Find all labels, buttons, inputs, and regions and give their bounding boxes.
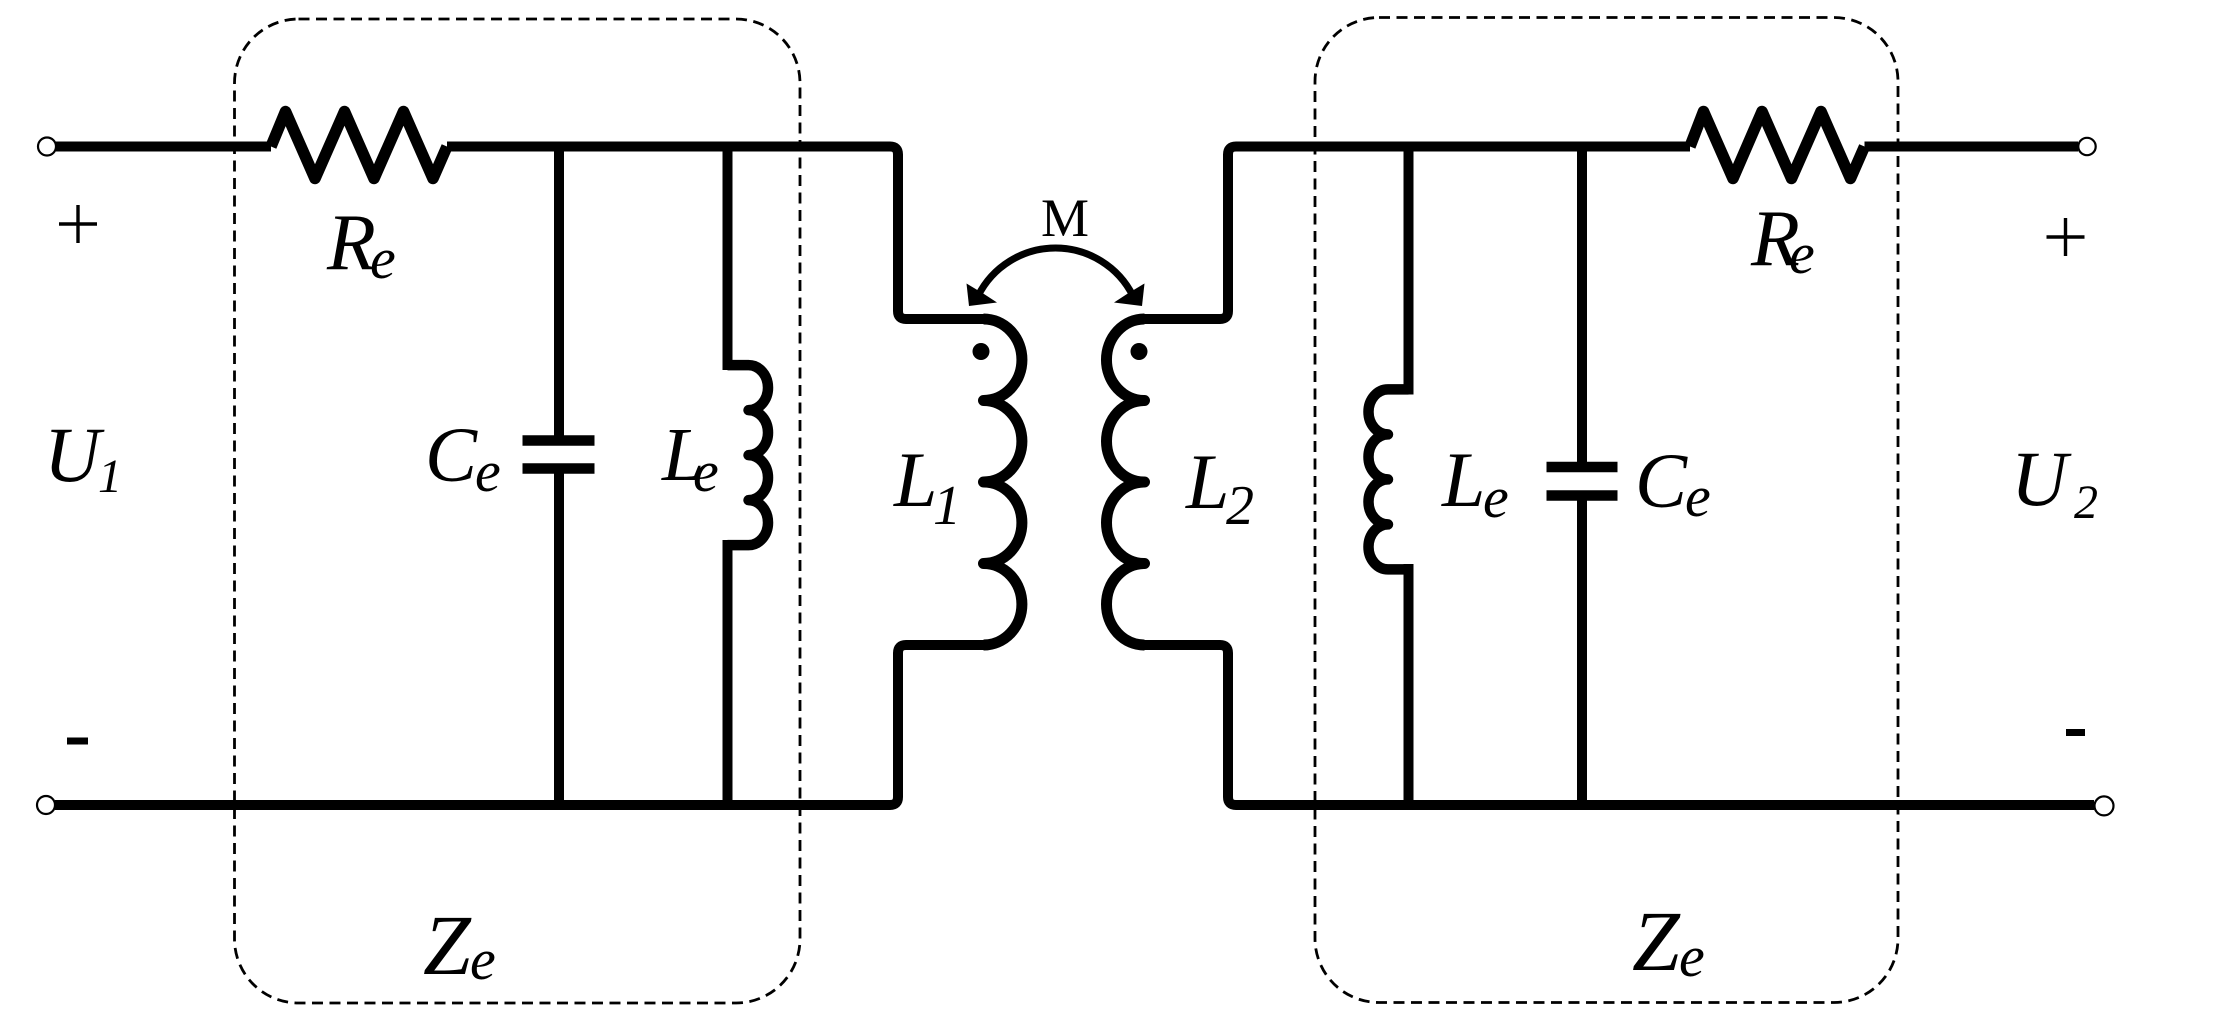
- wire top rail left with step down to primary: [447, 147, 984, 320]
- plus sign left: [59, 205, 97, 243]
- capacitor Ce left: [523, 441, 595, 469]
- svg-text:e: e: [1679, 924, 1705, 989]
- wire top rail right with step down to secondary: [1145, 147, 1691, 320]
- svg-text:e: e: [1789, 221, 1815, 286]
- svg-text:U: U: [44, 411, 105, 498]
- svg-text:L: L: [893, 436, 937, 523]
- svg-text:M: M: [1041, 188, 1089, 248]
- svg-text:e: e: [693, 439, 719, 504]
- svg-text:Z: Z: [423, 897, 472, 993]
- inductor Le left: [728, 365, 769, 545]
- svg-text:C: C: [1635, 437, 1688, 524]
- wire inductor branch lower right: [1404, 564, 1414, 805]
- resistor Re left: [271, 112, 447, 179]
- svg-text:U: U: [2011, 435, 2072, 522]
- svg-text:e: e: [1685, 464, 1711, 529]
- wire from resistor to right terminal: [1865, 142, 2079, 152]
- wire inductor branch upper left: [723, 142, 733, 371]
- wire capacitor branch upper left: [554, 142, 564, 436]
- polarity dot L1: [973, 343, 990, 360]
- dashed box Ze left: [235, 19, 801, 1003]
- svg-text:e: e: [1483, 465, 1509, 530]
- wire capacitor branch upper right: [1577, 142, 1587, 463]
- transformer winding L1: [984, 319, 1022, 645]
- svg-text:e: e: [370, 226, 396, 291]
- svg-text:2: 2: [1226, 475, 1254, 537]
- svg-text:L: L: [1185, 438, 1229, 525]
- wire top-left from terminal to resistor: [56, 142, 271, 152]
- capacitor Ce right: [1547, 467, 1618, 496]
- transformer winding L2: [1106, 319, 1144, 645]
- wire bottom rail left from primary to terminal: [55, 645, 984, 805]
- plus sign right: [2047, 218, 2085, 256]
- terminal port lower left: [37, 796, 55, 814]
- svg-text:1: 1: [98, 450, 122, 503]
- wire capacitor branch lower right: [1577, 501, 1587, 806]
- inductor Le right: [1368, 389, 1408, 569]
- wire inductor branch lower left: [723, 540, 733, 805]
- wire bottom rail right from secondary to terminal: [1145, 645, 2095, 805]
- terminal port lower right: [2095, 796, 2114, 815]
- wire capacitor branch lower left: [554, 474, 564, 806]
- svg-text:L: L: [1441, 436, 1485, 523]
- minus sign left: [67, 738, 88, 745]
- minus sign right: [2066, 729, 2085, 736]
- mutual inductance arrow M: [978, 248, 1133, 296]
- terminal port upper right: [2078, 138, 2095, 155]
- svg-text:R: R: [326, 199, 376, 287]
- terminal port upper left: [38, 138, 56, 156]
- svg-text:2: 2: [2074, 476, 2098, 529]
- polarity dot L2: [1131, 343, 1148, 360]
- svg-text:1: 1: [933, 475, 961, 537]
- resistor Re right: [1690, 112, 1865, 179]
- svg-text:Z: Z: [1632, 893, 1681, 989]
- wire inductor branch upper right: [1404, 142, 1414, 395]
- dashed box Ze right: [1315, 18, 1898, 1003]
- svg-text:e: e: [470, 927, 496, 992]
- svg-text:e: e: [475, 439, 501, 504]
- svg-text:C: C: [425, 411, 478, 498]
